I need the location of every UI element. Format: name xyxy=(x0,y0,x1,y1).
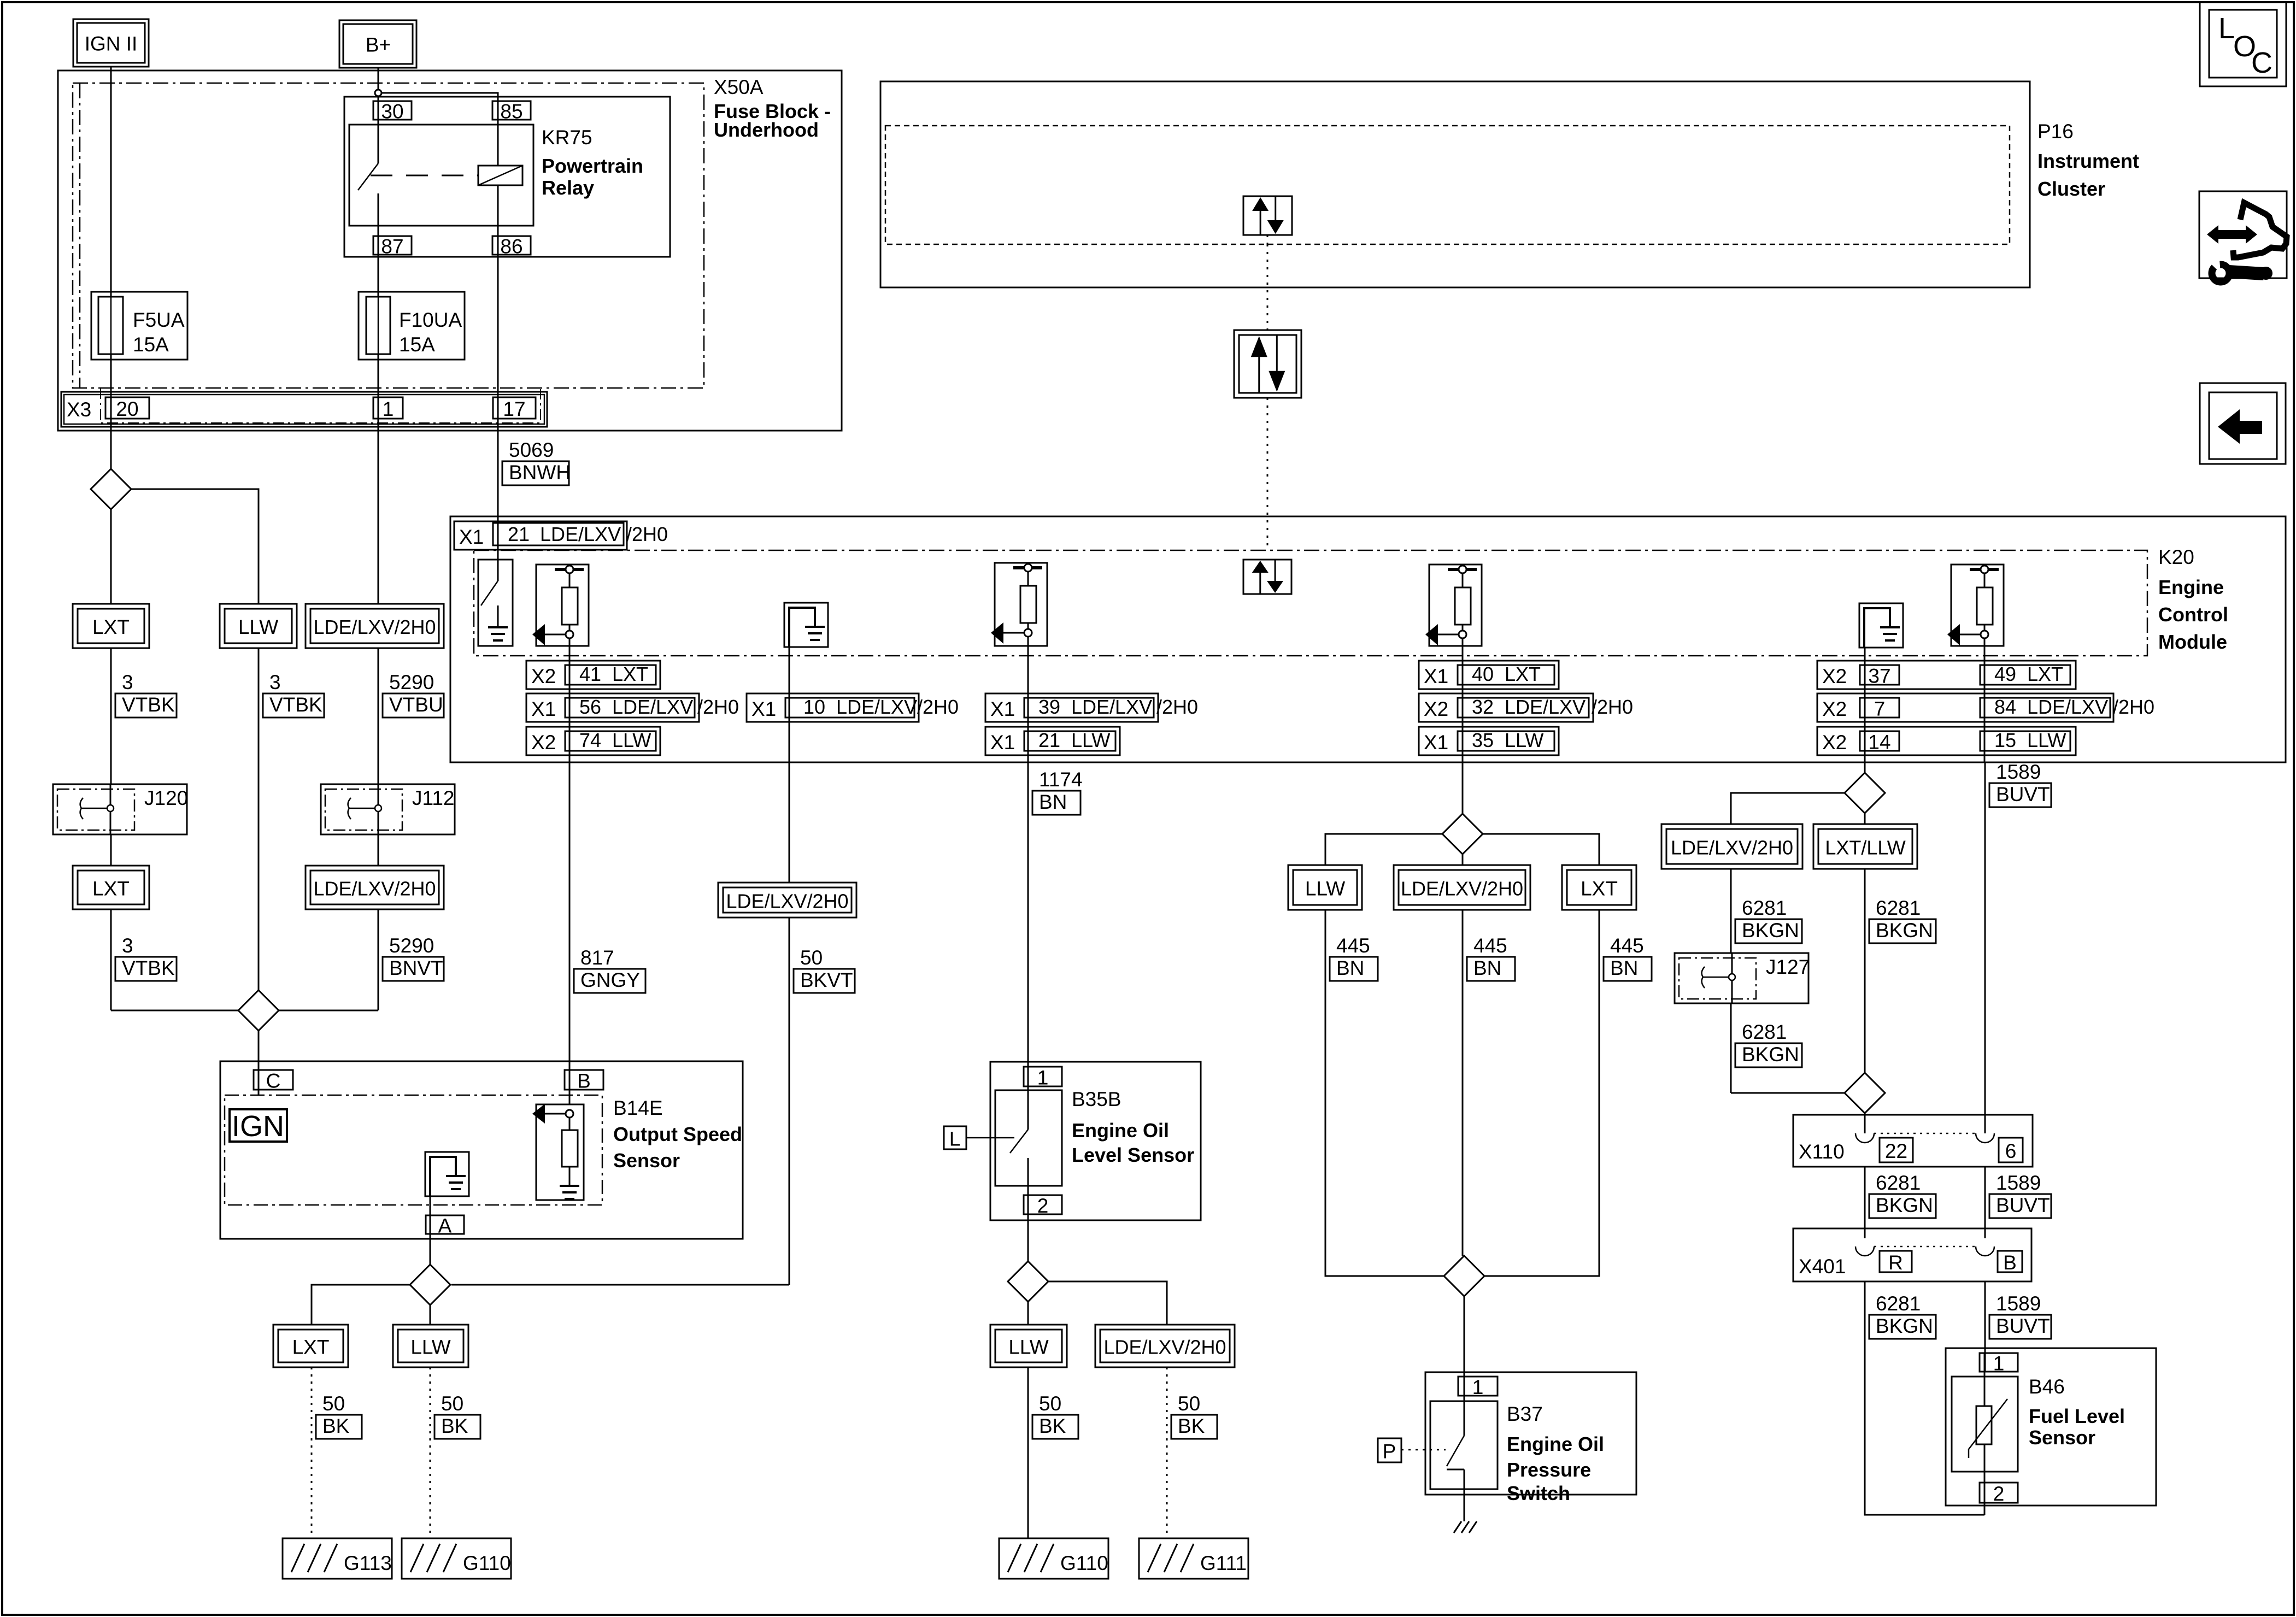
net label LDE/LXV/2H0 lower xyxy=(306,866,444,909)
svg-text:GNGY: GNGY xyxy=(580,969,640,991)
svg-text:6: 6 xyxy=(2005,1140,2017,1162)
svg-text:BK: BK xyxy=(1178,1415,1205,1437)
svg-text:L: L xyxy=(2218,12,2235,45)
svg-text:37: 37 xyxy=(1868,665,1890,687)
svg-text:IGN II: IGN II xyxy=(85,33,138,55)
svg-text:21: 21 xyxy=(1038,729,1060,751)
svg-text:/2H0: /2H0 xyxy=(917,696,959,718)
svg-text:1: 1 xyxy=(1472,1376,1484,1398)
ECM connector X2 32 LDE/LXV/2H0 xyxy=(1419,693,1593,722)
svg-text:BK: BK xyxy=(1039,1415,1066,1437)
svg-text:B35B: B35B xyxy=(1072,1088,1121,1110)
wire IGN II to fuse F5UA xyxy=(110,67,112,297)
svg-text:5069: 5069 xyxy=(509,439,554,461)
svg-text:5290: 5290 xyxy=(389,671,434,693)
svg-text:1589: 1589 xyxy=(1996,761,2041,783)
chassis ground below B37 xyxy=(1454,1521,1461,1533)
svg-text:LDE/LXV: LDE/LXV xyxy=(836,696,917,718)
wire ECM element to 49 LXT column xyxy=(1984,646,1986,762)
svg-text:Relay: Relay xyxy=(542,177,594,199)
svg-text:BUVT: BUVT xyxy=(1996,783,2050,805)
svg-text:BKGN: BKGN xyxy=(1876,1315,1933,1337)
svg-text:7: 7 xyxy=(1874,698,1886,720)
svg-text:LLW: LLW xyxy=(1505,729,1543,751)
ground splice under B14E xyxy=(410,1265,450,1305)
splice above B14E pin C xyxy=(238,990,279,1031)
svg-text:LDE/LXV: LDE/LXV xyxy=(1505,696,1586,718)
net label LXT 445 xyxy=(1562,865,1636,910)
fuse F5UA 15A xyxy=(91,292,187,360)
svg-text:50: 50 xyxy=(322,1392,345,1415)
ECM K20 dash-dot boundary xyxy=(474,550,2147,656)
svg-text:2: 2 xyxy=(1037,1195,1049,1217)
wire coil to pin 86 xyxy=(497,185,499,581)
inline connector X110 xyxy=(1793,1115,2033,1167)
wire BKVT into B14E ground splice xyxy=(451,1284,789,1286)
net label LDE/LXV/2H0 upper xyxy=(306,604,444,648)
svg-text:LDE/LXV: LDE/LXV xyxy=(612,696,693,718)
svg-text:87: 87 xyxy=(381,236,403,258)
svg-text:X1: X1 xyxy=(459,526,484,548)
wire ECM ground to X2 37 column xyxy=(1864,648,1866,762)
instrument cluster P16 outer box xyxy=(880,81,2030,287)
svg-text:LDE/LXV/2H0: LDE/LXV/2H0 xyxy=(1401,878,1523,900)
svg-text:B46: B46 xyxy=(2029,1375,2065,1398)
LOC icon box xyxy=(2200,2,2286,86)
wire 50 BKVT circuit xyxy=(789,762,790,883)
svg-text:15A: 15A xyxy=(399,333,435,356)
svg-text:6281: 6281 xyxy=(1876,897,1921,919)
svg-text:Instrument: Instrument xyxy=(2037,150,2139,172)
svg-text:LLW: LLW xyxy=(612,729,651,751)
svg-text:A: A xyxy=(438,1215,452,1237)
dotted serial data link P16 to connector icon xyxy=(1267,244,1269,330)
svg-text:X1: X1 xyxy=(1424,665,1448,687)
svg-text:LDE/LXV/2H0: LDE/LXV/2H0 xyxy=(1103,1336,1226,1359)
wire 6281 BKGN J127 branch upper xyxy=(1730,869,1732,953)
B46 pin 2 xyxy=(1980,1483,2018,1503)
svg-text:Underhood: Underhood xyxy=(714,119,819,141)
svg-text:LLW: LLW xyxy=(1305,878,1345,900)
relay KR75 switch blade xyxy=(358,163,378,190)
svg-text:Fuel Level: Fuel Level xyxy=(2029,1405,2125,1427)
svg-text:BN: BN xyxy=(1336,957,1364,979)
svg-text:K20: K20 xyxy=(2158,546,2194,568)
relay KR75 pin 87 xyxy=(373,236,412,255)
vehicle service icon box xyxy=(2199,191,2287,278)
wire 50 BK dotted to G110 xyxy=(430,1367,431,1538)
svg-text:J120: J120 xyxy=(144,787,188,809)
serial data arrow icon inside K20 xyxy=(1243,560,1291,594)
svg-text:10: 10 xyxy=(803,696,825,718)
svg-text:KR75: KR75 xyxy=(542,126,592,149)
svg-text:BUVT: BUVT xyxy=(1996,1315,2050,1337)
wire splice down to LXT/LLW label xyxy=(1864,813,1866,824)
svg-text:X2: X2 xyxy=(1822,731,1847,754)
svg-text:X1: X1 xyxy=(751,698,776,720)
svg-text:VTBK: VTBK xyxy=(269,693,322,716)
connector X3 pin 17 xyxy=(493,397,536,419)
svg-text:J112: J112 xyxy=(412,787,455,809)
svg-text:VTBK: VTBK xyxy=(122,693,175,716)
B35B pin 1 xyxy=(1024,1067,1062,1086)
svg-text:1: 1 xyxy=(1037,1067,1049,1089)
wire J127 branch into splice xyxy=(1731,1092,1845,1094)
svg-text:G110: G110 xyxy=(463,1552,511,1574)
svg-text:BK: BK xyxy=(441,1415,468,1437)
ECM connector X1 39 LDE/LXV/2H0 xyxy=(985,693,1158,722)
svg-text:LXT: LXT xyxy=(612,663,648,685)
splice above 445 BN leads xyxy=(1442,814,1483,854)
wire J112 to LDE label xyxy=(378,834,379,866)
net label LLW ground lead xyxy=(393,1325,468,1367)
wire 6281 BKGN below X401 xyxy=(1865,1281,1984,1515)
net label LDE/LXV/2H0 right xyxy=(1661,824,1802,869)
svg-text:6281: 6281 xyxy=(1742,897,1787,919)
svg-text:LDE/LXV/2H0: LDE/LXV/2H0 xyxy=(726,890,848,913)
vehicle service icon wrench xyxy=(2212,264,2229,282)
svg-text:Engine: Engine xyxy=(2158,576,2224,598)
svg-text:B+: B+ xyxy=(366,34,391,56)
wire J120 to LXT label xyxy=(110,834,112,866)
svg-text:L: L xyxy=(949,1128,961,1150)
svg-text:F10UA: F10UA xyxy=(399,309,462,331)
wire splice to LLW 445 lead xyxy=(1325,834,1442,865)
svg-text:LDE/LXV/2H0: LDE/LXV/2H0 xyxy=(313,878,436,900)
relay KR75 pin 85 xyxy=(492,101,531,120)
splice above B37 xyxy=(1444,1256,1484,1296)
ECM sensing element for oil pressure signal xyxy=(1429,565,1482,646)
net label LLW under B35B xyxy=(990,1325,1067,1367)
ECM internal switch to ground xyxy=(478,560,513,646)
svg-text:IGN: IGN xyxy=(232,1110,284,1143)
wire 1589 BUVT to B46 pin 1 xyxy=(1984,1281,1986,1372)
svg-text:50: 50 xyxy=(800,946,823,969)
svg-text:B: B xyxy=(577,1070,591,1092)
svg-text:LXT: LXT xyxy=(2027,663,2063,685)
svg-text:BN: BN xyxy=(1039,791,1067,813)
svg-text:C: C xyxy=(266,1070,281,1092)
wire 50 BK to G110 mid xyxy=(1027,1367,1029,1538)
svg-text:1: 1 xyxy=(1993,1353,2005,1375)
svg-text:17: 17 xyxy=(503,398,525,420)
svg-text:50: 50 xyxy=(441,1392,463,1415)
svg-text:Sensor: Sensor xyxy=(613,1149,680,1172)
svg-text:/2H0: /2H0 xyxy=(1592,696,1633,718)
dotted serial data link to K20 xyxy=(1267,398,1269,550)
svg-text:Powertrain: Powertrain xyxy=(542,155,643,177)
svg-text:49: 49 xyxy=(1994,663,2016,685)
serial data arrow icon inside P16 xyxy=(1243,196,1292,235)
svg-text:X1: X1 xyxy=(990,698,1015,720)
wire splice to LDE lead xyxy=(1048,1281,1167,1325)
svg-text:LDE/LXV/2H0: LDE/LXV/2H0 xyxy=(1671,837,1793,859)
svg-text:Output Speed: Output Speed xyxy=(613,1123,742,1145)
svg-text:/2H0: /2H0 xyxy=(1156,696,1198,718)
power node IGN II xyxy=(73,19,149,67)
svg-text:/2H0: /2H0 xyxy=(697,696,739,718)
wire ECM X1 40 column down to splice xyxy=(1462,762,1464,814)
ECM connector X1 21 LLW xyxy=(985,727,1120,755)
wire LDE column into splice xyxy=(279,1010,378,1012)
B37 P terminal xyxy=(1378,1438,1401,1462)
svg-text:B37: B37 xyxy=(1507,1403,1543,1425)
X110 pin 22 xyxy=(1880,1138,1913,1162)
svg-text:J127: J127 xyxy=(1766,956,1810,978)
svg-text:C: C xyxy=(2251,46,2272,79)
connector X3 pin 20 xyxy=(105,397,149,419)
instrument cluster P16 dashed inner box xyxy=(885,126,2010,244)
svg-text:LXT: LXT xyxy=(92,616,130,638)
wire splice down LXT column xyxy=(110,509,112,604)
ECM connector X2 41 LXT xyxy=(526,661,660,689)
svg-text:5290: 5290 xyxy=(389,934,434,957)
svg-text:Switch: Switch xyxy=(1507,1482,1570,1504)
ECM connector X2 37 and 49 LXT xyxy=(1817,661,2076,689)
B37 inner box xyxy=(1430,1401,1498,1489)
B35B pin 2 xyxy=(1024,1195,1062,1214)
wire 817 GNGY circuit xyxy=(569,762,571,1104)
svg-text:BNVT: BNVT xyxy=(389,957,443,979)
svg-text:LXT: LXT xyxy=(1581,878,1618,900)
ECM sensing element for output speed signal xyxy=(536,565,589,646)
svg-text:3: 3 xyxy=(269,671,281,693)
wire 3 VTBK lower circuit xyxy=(110,909,112,1010)
wire ECM element to X2 41 column xyxy=(569,646,571,762)
svg-text:Sensor: Sensor xyxy=(2029,1426,2095,1449)
ECM connector X1 10 LDE/LXV/2H0 xyxy=(747,693,919,722)
svg-text:1589: 1589 xyxy=(1996,1172,2041,1194)
wire B+ junction to pin 85 branch xyxy=(381,93,498,166)
wire 3 VTBK circuit LXT xyxy=(110,648,112,784)
X110 pin 6 xyxy=(1999,1138,2023,1162)
relay KR75 pin 86 xyxy=(492,236,531,255)
svg-text:X1: X1 xyxy=(531,698,556,720)
svg-text:BKVT: BKVT xyxy=(800,969,853,991)
ground G113 xyxy=(283,1538,392,1579)
svg-text:3: 3 xyxy=(122,934,133,957)
svg-text:LLW: LLW xyxy=(1008,1336,1048,1359)
svg-text:G110: G110 xyxy=(1060,1552,1108,1574)
relay KR75 pin 30 xyxy=(373,101,412,120)
svg-text:LXT: LXT xyxy=(1505,663,1541,685)
svg-text:LLW: LLW xyxy=(410,1336,450,1359)
svg-text:LDE/LXV/2H0: LDE/LXV/2H0 xyxy=(313,616,436,638)
net label LLW xyxy=(220,604,297,648)
svg-text:Control: Control xyxy=(2158,603,2228,626)
B14E internal IGN node xyxy=(230,1109,287,1142)
svg-text:445: 445 xyxy=(1473,934,1507,957)
component B46 Fuel Level Sensor box xyxy=(1946,1348,2156,1506)
junction grommet J120 xyxy=(53,784,187,834)
svg-text:84: 84 xyxy=(1994,696,2016,718)
svg-text:LLW: LLW xyxy=(2027,729,2066,751)
ECM sensing element for oil level signal xyxy=(995,563,1047,646)
net label LXT upper xyxy=(73,604,149,648)
svg-text:LDE/LXV: LDE/LXV xyxy=(2027,696,2108,718)
svg-text:30: 30 xyxy=(381,101,403,123)
wire splice down LDE 445 lead xyxy=(1462,854,1464,865)
net label LXT ground lead xyxy=(273,1325,348,1367)
back arrow icon box xyxy=(2200,383,2286,464)
ECM sensing element for fuel level signal xyxy=(1951,565,2004,646)
relay KR75 coil xyxy=(478,166,522,185)
wire 5290 BNVT circuit xyxy=(378,909,379,1010)
connector X3 pin 1 xyxy=(373,397,403,419)
ECM connector X2 7 and 84 LDE/LXV/2H0 xyxy=(1817,693,2113,722)
svg-text:P16: P16 xyxy=(2037,120,2074,143)
component B35B Engine Oil Level Sensor box xyxy=(990,1062,1201,1220)
svg-text:6281: 6281 xyxy=(1742,1021,1787,1043)
svg-text:445: 445 xyxy=(1336,934,1370,957)
back arrow xyxy=(2218,409,2262,444)
svg-text:21: 21 xyxy=(508,523,530,545)
B14E pin C xyxy=(254,1070,293,1090)
svg-text:R: R xyxy=(1888,1251,1903,1274)
svg-text:85: 85 xyxy=(500,101,522,123)
net label LDE/LXV/2H0 mid xyxy=(718,883,856,918)
wire ECM element to X1 39 column xyxy=(1027,646,1029,762)
svg-text:X2: X2 xyxy=(1822,665,1847,687)
vehicle service icon car outline xyxy=(2233,203,2287,257)
svg-text:14: 14 xyxy=(1868,731,1890,754)
wire splice to B14E pin C xyxy=(258,1031,260,1095)
svg-text:G113: G113 xyxy=(344,1552,392,1574)
wire 50 BK dotted to G111 xyxy=(1166,1367,1168,1538)
B37 pin 1 xyxy=(1458,1377,1498,1396)
ECM internal ground element left xyxy=(784,603,828,647)
B35B L terminal xyxy=(944,1126,966,1149)
wire splice to LXT 445 lead xyxy=(1483,834,1599,865)
splice above X110 xyxy=(1845,1073,1885,1113)
wire 5290 VTBU circuit xyxy=(378,648,379,784)
wire fuse F5UA internal xyxy=(110,297,112,354)
svg-text:X2: X2 xyxy=(1424,698,1448,720)
svg-text:445: 445 xyxy=(1610,934,1644,957)
svg-text:BKGN: BKGN xyxy=(1742,919,1799,942)
svg-text:35: 35 xyxy=(1472,729,1494,751)
splice under B35B xyxy=(1008,1261,1048,1302)
svg-text:3: 3 xyxy=(122,671,133,693)
wire splice branch to LLW column xyxy=(131,489,259,604)
svg-text:X2: X2 xyxy=(1822,698,1847,720)
svg-text:X50A: X50A xyxy=(714,76,764,98)
wire 6281 BKGN direct branch xyxy=(1864,869,1866,1073)
svg-text:6281: 6281 xyxy=(1876,1172,1921,1194)
svg-text:Level Sensor: Level Sensor xyxy=(1072,1144,1194,1166)
B37 pressure switch xyxy=(1464,1377,1465,1436)
wire F5UA to X3 pin 20 xyxy=(110,354,112,469)
ground G110 left xyxy=(402,1538,511,1579)
svg-text:F5UA: F5UA xyxy=(133,309,185,331)
svg-text:40: 40 xyxy=(1472,663,1494,685)
svg-text:Module: Module xyxy=(2158,631,2227,653)
net label LLW 445 xyxy=(1288,865,1362,910)
svg-text:BKGN: BKGN xyxy=(1876,919,1933,942)
svg-text:X2: X2 xyxy=(531,731,556,754)
svg-text:56: 56 xyxy=(579,696,601,718)
ECM connector X1 40 LXT xyxy=(1419,661,1559,689)
svg-text:/2H0: /2H0 xyxy=(626,523,668,545)
svg-text:BN: BN xyxy=(1610,957,1638,979)
svg-text:LLW: LLW xyxy=(1071,729,1110,751)
svg-text:50: 50 xyxy=(1178,1392,1200,1415)
svg-text:22: 22 xyxy=(1885,1140,1907,1162)
fuse F10UA 15A xyxy=(359,292,465,360)
svg-text:Cluster: Cluster xyxy=(2037,178,2105,200)
B46 inner box xyxy=(1952,1377,2018,1472)
svg-text:B14E: B14E xyxy=(613,1097,663,1119)
ECM connector X1 56 LDE/LXV/2H0 xyxy=(526,693,699,722)
wire B+ to relay xyxy=(378,68,379,89)
svg-text:X3: X3 xyxy=(67,398,91,421)
svg-text:15: 15 xyxy=(1994,729,2016,751)
wire F10UA to X3 pin 1 xyxy=(378,354,379,604)
svg-text:BKGN: BKGN xyxy=(1742,1043,1799,1066)
B14E pin A xyxy=(426,1215,464,1234)
B14E sensing element xyxy=(536,1104,584,1200)
svg-text:X2: X2 xyxy=(531,665,556,687)
svg-text:BNWH: BNWH xyxy=(509,461,571,484)
B35B level switch xyxy=(1027,1067,1029,1130)
svg-text:LDE/LXV: LDE/LXV xyxy=(540,523,621,545)
component B14E Output Speed Sensor box xyxy=(220,1061,743,1239)
B35B inner box xyxy=(995,1090,1062,1186)
svg-text:Engine Oil: Engine Oil xyxy=(1072,1119,1169,1142)
wire B+ junction down to pin 30 xyxy=(378,96,379,163)
svg-text:X1: X1 xyxy=(1424,731,1448,754)
junction circle on B+ feed xyxy=(375,90,381,96)
ground G110 mid xyxy=(999,1538,1108,1579)
svg-text:1589: 1589 xyxy=(1996,1292,2041,1315)
wire splice to B37 pin 1 xyxy=(1464,1296,1465,1396)
B46 pin 1 xyxy=(1980,1353,2018,1372)
net label LXT lower xyxy=(73,866,149,909)
wire 445 BN LDE branch xyxy=(1462,910,1464,1256)
svg-text:BK: BK xyxy=(322,1415,350,1437)
wire splice to LLW lead xyxy=(1027,1302,1029,1325)
B46 variable resistor xyxy=(1984,1353,1986,1406)
svg-text:817: 817 xyxy=(580,946,614,969)
net label LDE/LXV/2H0 445 xyxy=(1394,865,1530,910)
svg-text:LLW: LLW xyxy=(238,616,278,638)
wire pin C stub xyxy=(258,1090,260,1095)
svg-text:1: 1 xyxy=(383,398,394,420)
ECM connector X2 74 LLW xyxy=(526,727,660,755)
svg-text:X110: X110 xyxy=(1799,1140,1845,1163)
svg-text:BKGN: BKGN xyxy=(1876,1194,1933,1216)
ECM connector X2 14 and 15 LLW xyxy=(1817,727,2076,755)
wire ECM ground to X1 10 column xyxy=(789,647,790,762)
component B37 Engine Oil Pressure Switch box xyxy=(1425,1372,1636,1495)
svg-text:B: B xyxy=(2003,1251,2017,1274)
ECM K20 connector X1 21 LDE/LXV/2H0 xyxy=(454,521,627,550)
wire B14E ground to pin A and splice xyxy=(430,1196,431,1265)
X401 pin R xyxy=(1880,1251,1912,1272)
X401 pin B xyxy=(1998,1251,2022,1272)
net label LDE/LXV/2H0 under B35B xyxy=(1095,1325,1235,1367)
svg-text:BN: BN xyxy=(1473,957,1501,979)
wire ECM element to X1 40 column xyxy=(1462,646,1464,762)
svg-text:P: P xyxy=(1383,1440,1396,1463)
wire LXT column into splice xyxy=(111,1010,238,1012)
B14E pin B xyxy=(565,1070,603,1090)
wire 1174 BN circuit xyxy=(1027,762,1029,1086)
ground G111 xyxy=(1139,1538,1248,1579)
fuse block X50A outer box xyxy=(58,70,842,431)
svg-text:G111: G111 xyxy=(1200,1552,1247,1574)
svg-text:20: 20 xyxy=(116,398,138,420)
